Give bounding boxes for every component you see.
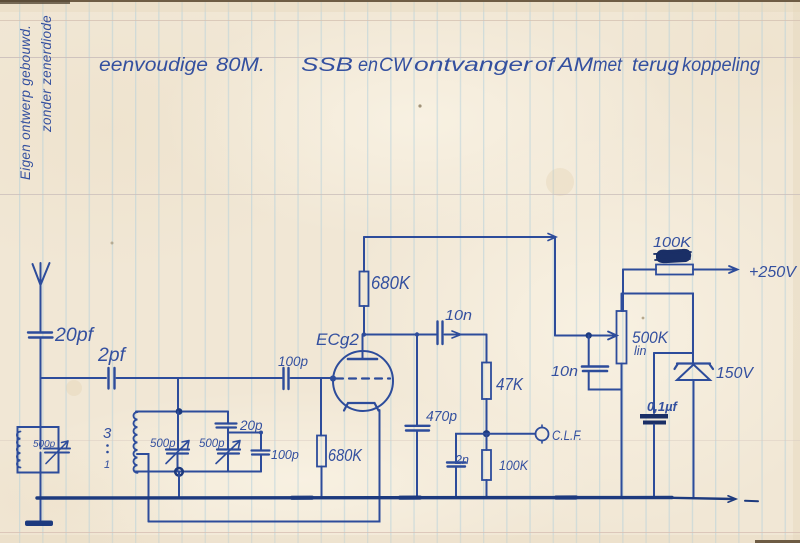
tank bottom rail bbox=[135, 471, 262, 473]
node wiper bbox=[586, 332, 592, 338]
svg-text:2n: 2n bbox=[454, 453, 469, 467]
svg-text:3: 3 bbox=[103, 425, 112, 442]
svg-text:Eigen ontwerp gebouwd.: Eigen ontwerp gebouwd. bbox=[18, 25, 33, 180]
potentiometer 500K lin bbox=[617, 311, 627, 364]
zener 150V bbox=[675, 364, 714, 370]
coil tap wire bbox=[137, 454, 149, 522]
svg-text:47K: 47K bbox=[496, 374, 524, 394]
svg-text:100K: 100K bbox=[653, 235, 692, 251]
shield box antenna tank bbox=[18, 427, 59, 473]
variable capacitor 500p (box) bbox=[44, 449, 70, 453]
margin note (rotated) line 1 bbox=[18, 15, 54, 180]
svg-text:500p: 500p bbox=[199, 438, 225, 450]
svg-text:0,1µf: 0,1µf bbox=[647, 399, 679, 414]
capacitor 20p bbox=[216, 424, 237, 428]
node output bbox=[483, 430, 490, 437]
svg-text:2pf: 2pf bbox=[97, 345, 127, 366]
node 470p junction bbox=[416, 335, 418, 426]
svg-text:+250V: +250V bbox=[749, 264, 798, 281]
variable capacitor 500p #1 bbox=[177, 412, 179, 450]
label 3:1 coupling bbox=[103, 425, 112, 471]
resistor 100K lower bbox=[486, 434, 488, 450]
wire node A horizontal bbox=[41, 377, 107, 379]
capacitor 10n bypass bbox=[588, 336, 590, 367]
wire wiper bbox=[555, 335, 616, 337]
cathode bbox=[344, 403, 379, 411]
wire to grid bbox=[291, 377, 334, 379]
svg-text:500p: 500p bbox=[33, 439, 56, 450]
wire grid leak drop bbox=[320, 379, 322, 436]
wire box to ground bbox=[40, 473, 42, 521]
output jack CLF bbox=[487, 433, 536, 435]
node B drop to tank bbox=[177, 378, 179, 412]
svg-text:20pf: 20pf bbox=[54, 325, 95, 346]
+250V rail bbox=[623, 269, 736, 271]
svg-text:zonder zenerdiode: zonder zenerdiode bbox=[39, 15, 54, 133]
resistor 100K dropper bbox=[653, 235, 692, 251]
coil L2 main tank bbox=[133, 412, 137, 473]
svg-text:10n: 10n bbox=[445, 308, 472, 324]
svg-text:100p: 100p bbox=[278, 353, 308, 369]
ground bbox=[25, 521, 53, 527]
antenna bbox=[33, 263, 50, 285]
resistor 680K grid leak bbox=[317, 436, 326, 467]
title text bbox=[99, 55, 760, 76]
svg-text:C.L.F.: C.L.F. bbox=[552, 428, 582, 443]
svg-text:10n: 10n bbox=[551, 364, 578, 380]
svg-text:100p: 100p bbox=[271, 448, 299, 462]
wire tank bottom to ground bus bbox=[178, 472, 180, 498]
capacitor 2n bbox=[456, 434, 487, 462]
svg-text:470p: 470p bbox=[426, 409, 457, 425]
svg-text:eenvoudige80M.SSBenCWontvanger: eenvoudige80M.SSBenCWontvangerofAMmetter… bbox=[99, 55, 760, 76]
svg-text:680K: 680K bbox=[371, 273, 411, 293]
svg-text:ECg2: ECg2 bbox=[316, 330, 360, 349]
cathode feedback wire bbox=[149, 410, 380, 522]
capacitor 10n coupling bbox=[438, 322, 443, 345]
capacitor 100p coupling bbox=[284, 368, 289, 389]
svg-text:100K: 100K bbox=[499, 458, 529, 473]
grid (dashed) bbox=[336, 377, 390, 379]
capacitor 0,1uf electrolytic bbox=[654, 352, 693, 354]
wire bbox=[40, 338, 42, 473]
wire top rail to regen pot bbox=[364, 237, 555, 336]
resistor 47K bbox=[486, 335, 488, 363]
svg-text:150V: 150V bbox=[716, 365, 755, 382]
variable capacitor 500p #2 bbox=[227, 433, 229, 450]
coil L1 in box bbox=[17, 432, 21, 468]
capacitor 20pf bbox=[28, 333, 53, 338]
svg-text:lin: lin bbox=[634, 344, 647, 358]
tank top rail bbox=[136, 411, 228, 413]
capacitor 2pf bbox=[109, 368, 115, 389]
triode EC92 envelope bbox=[333, 351, 393, 411]
svg-text:500p: 500p bbox=[150, 438, 176, 450]
node tank bottom bbox=[175, 468, 183, 476]
wire B+ node down bbox=[622, 270, 624, 312]
wire anode node bbox=[363, 334, 437, 336]
ground bus bbox=[37, 496, 672, 500]
anode plate bbox=[348, 358, 377, 361]
wire 20p branch bbox=[227, 412, 229, 423]
wire to zener bbox=[623, 294, 693, 364]
grid lead node bbox=[330, 375, 336, 381]
svg-text:1: 1 bbox=[104, 459, 110, 471]
svg-text:20p: 20p bbox=[239, 418, 263, 433]
capacitor 100p tank bbox=[260, 433, 262, 451]
wire to grid cap bbox=[117, 377, 283, 379]
svg-text:680K: 680K bbox=[328, 445, 363, 465]
wire antenna down bbox=[40, 285, 42, 331]
scribble blot bbox=[657, 250, 690, 262]
resistor 680K anode load bbox=[363, 306, 365, 335]
node tank top bbox=[176, 408, 183, 415]
capacitor 470p bbox=[406, 426, 430, 431]
